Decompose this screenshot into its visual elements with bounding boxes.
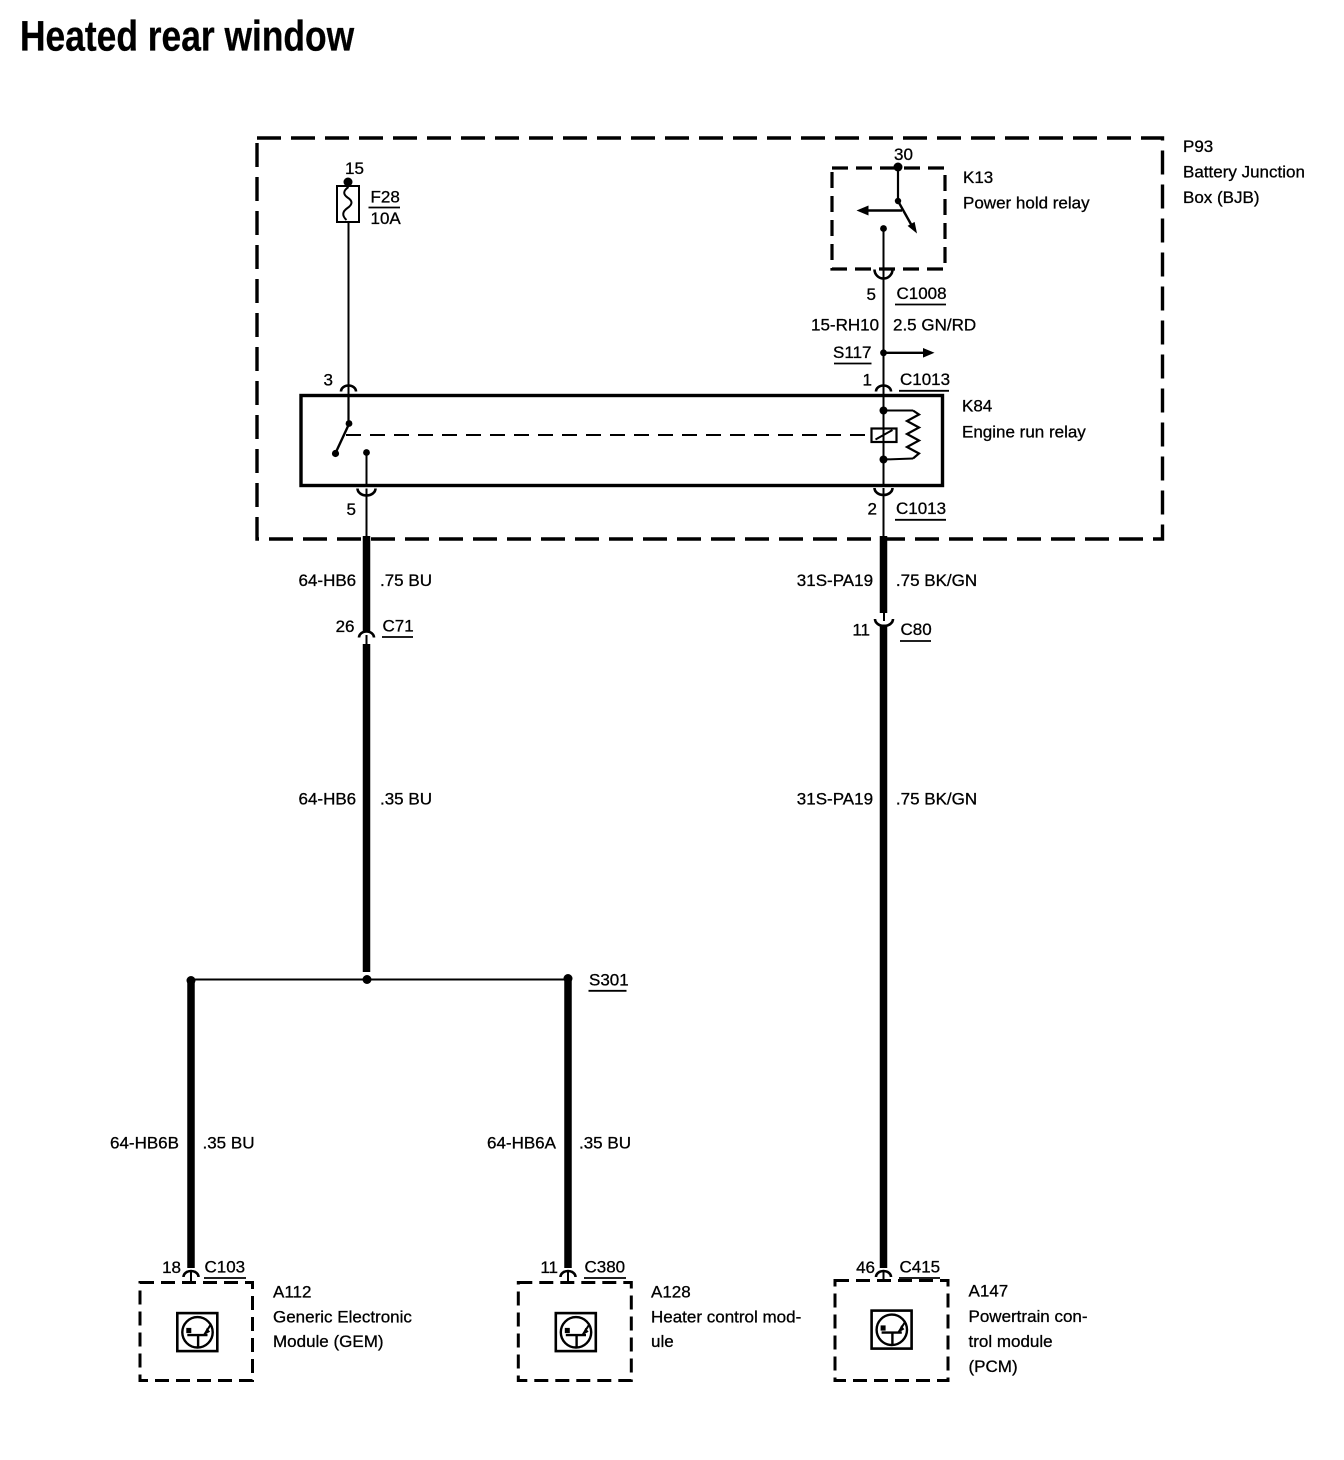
svg-text:Battery Junction: Battery Junction bbox=[1183, 163, 1305, 182]
K84 coil bbox=[872, 397, 897, 484]
svg-text:Heater control mod-: Heater control mod- bbox=[651, 1308, 801, 1327]
svg-text:46: 46 bbox=[856, 1258, 875, 1277]
svg-text:64-HB6: 64-HB6 bbox=[299, 790, 357, 809]
node 30 (K13 pin 30) bbox=[894, 145, 913, 172]
svg-text:11: 11 bbox=[540, 1258, 558, 1277]
svg-text:18: 18 bbox=[162, 1258, 181, 1277]
svg-text:ule: ule bbox=[651, 1332, 674, 1351]
svg-text:A112: A112 bbox=[273, 1283, 311, 1302]
svg-text:S117: S117 bbox=[833, 343, 871, 362]
svg-text:10A: 10A bbox=[371, 209, 402, 228]
wire 64-HB6 .35 BU bbox=[299, 644, 432, 972]
module A112 solid state icon bbox=[177, 1313, 217, 1351]
svg-text:3: 3 bbox=[324, 371, 333, 390]
svg-text:C103: C103 bbox=[205, 1258, 246, 1277]
svg-text:64-HB6: 64-HB6 bbox=[299, 571, 357, 590]
K13 lower contact node bbox=[880, 225, 887, 279]
svg-text:26: 26 bbox=[336, 617, 355, 636]
svg-text:Heated rear window: Heated rear window bbox=[20, 12, 354, 60]
svg-text:P93: P93 bbox=[1183, 137, 1213, 156]
svg-text:Box (BJB): Box (BJB) bbox=[1183, 188, 1260, 207]
node 15 (fuse feed pin) bbox=[344, 159, 364, 187]
module A112 box bbox=[140, 1283, 253, 1381]
svg-text:C380: C380 bbox=[585, 1258, 626, 1277]
splice S117 bbox=[833, 343, 934, 364]
svg-text:15: 15 bbox=[345, 159, 364, 178]
svg-text:.75 BK/GN: .75 BK/GN bbox=[896, 790, 977, 809]
connector pin 3 K84 bbox=[324, 371, 356, 392]
wire 64-HB6B .35 BU bbox=[110, 981, 254, 1269]
svg-text:C1008: C1008 bbox=[897, 284, 947, 303]
svg-text:S301: S301 bbox=[589, 971, 629, 990]
title Heated rear window bbox=[20, 12, 354, 60]
relay K84 box bbox=[301, 396, 1086, 486]
module A128 box bbox=[518, 1283, 631, 1381]
connector C380 pin 11 bbox=[540, 1258, 626, 1283]
svg-text:11: 11 bbox=[852, 621, 870, 640]
svg-text:.35 BU: .35 BU bbox=[380, 790, 432, 809]
svg-text:F28: F28 bbox=[371, 188, 400, 207]
svg-text:30: 30 bbox=[894, 145, 913, 164]
svg-text:64-HB6B: 64-HB6B bbox=[110, 1134, 179, 1153]
connector C103 pin 18 bbox=[162, 1258, 246, 1283]
module A147 solid state icon bbox=[872, 1311, 912, 1349]
connector C1013 pin 2 bbox=[868, 488, 947, 540]
K84 internal dashed link bbox=[346, 434, 872, 436]
K84 coil resistor branch bbox=[884, 411, 920, 460]
connector pin 5 K84 bbox=[347, 489, 376, 541]
label A147 Powertrain control module (PCM) bbox=[969, 1282, 1088, 1377]
battery junction box P93 dashed enclosure bbox=[257, 138, 1163, 539]
connector C80 pin 11 bbox=[852, 612, 931, 641]
K13 switch armature bbox=[895, 167, 917, 234]
svg-text:K13: K13 bbox=[963, 168, 993, 187]
label A128 Heater control module bbox=[651, 1283, 801, 1352]
svg-text:C80: C80 bbox=[901, 620, 932, 639]
svg-text:64-HB6A: 64-HB6A bbox=[487, 1134, 557, 1153]
svg-text:2.5 GN/RD: 2.5 GN/RD bbox=[893, 316, 976, 335]
module A147 box bbox=[835, 1281, 948, 1381]
svg-text:Power hold relay: Power hold relay bbox=[963, 194, 1090, 213]
connector C415 pin 46 bbox=[856, 1258, 940, 1281]
fuse F28 10A bbox=[337, 186, 401, 228]
svg-text:C1013: C1013 bbox=[900, 370, 950, 389]
wire 31S-PA19 .75 BK/GN lower bbox=[797, 625, 977, 1269]
svg-text:C71: C71 bbox=[383, 617, 414, 636]
svg-text:C1013: C1013 bbox=[896, 499, 946, 518]
svg-text:15-RH10: 15-RH10 bbox=[811, 316, 879, 335]
connector C71 pin 26 bbox=[336, 617, 414, 645]
svg-text:Powertrain con-: Powertrain con- bbox=[969, 1307, 1088, 1326]
svg-text:A147: A147 bbox=[969, 1282, 1009, 1301]
svg-text:C415: C415 bbox=[900, 1258, 941, 1277]
connector C1013 pin 1 bbox=[863, 370, 951, 392]
svg-text:trol module: trol module bbox=[969, 1332, 1053, 1351]
svg-text:1: 1 bbox=[863, 371, 872, 390]
svg-text:Engine run relay: Engine run relay bbox=[962, 423, 1086, 442]
wire 64-HB6 .75 BU bbox=[299, 536, 432, 632]
label A112 Generic Electronic Module (GEM) bbox=[273, 1283, 412, 1352]
svg-text:A128: A128 bbox=[651, 1283, 691, 1302]
svg-text:Module (GEM): Module (GEM) bbox=[273, 1332, 384, 1351]
svg-text:31S-PA19: 31S-PA19 bbox=[797, 790, 873, 809]
svg-text:5: 5 bbox=[347, 500, 356, 519]
svg-text:Generic Electronic: Generic Electronic bbox=[273, 1308, 412, 1327]
svg-text:K84: K84 bbox=[962, 397, 992, 416]
module A128 solid state icon bbox=[556, 1313, 596, 1351]
svg-text:5: 5 bbox=[867, 285, 876, 304]
wire 31S-PA19 .75 BK/GN upper bbox=[797, 536, 977, 613]
svg-text:.75 BK/GN: .75 BK/GN bbox=[896, 571, 977, 590]
svg-text:.35 BU: .35 BU bbox=[203, 1134, 255, 1153]
svg-text:31S-PA19: 31S-PA19 bbox=[797, 571, 873, 590]
svg-text:2: 2 bbox=[868, 500, 877, 519]
splice S301 bbox=[187, 971, 629, 991]
connector C1008 pin 5 bbox=[867, 270, 947, 305]
label P93 Battery Junction Box (BJB) bbox=[1183, 137, 1305, 207]
wire C1008 to S117, 15-RH10 2.5 GN/RD bbox=[811, 279, 976, 398]
K13 left contact arrow bbox=[857, 206, 903, 216]
K84 switch bbox=[332, 397, 370, 484]
svg-text:.75 BU: .75 BU bbox=[380, 571, 432, 590]
svg-text:.35 BU: .35 BU bbox=[579, 1134, 631, 1153]
wire 64-HB6A .35 BU bbox=[487, 979, 631, 1269]
wire fuse F28 to K84 pin 3 bbox=[348, 222, 350, 398]
svg-text:(PCM): (PCM) bbox=[969, 1357, 1018, 1376]
relay K13 dashed box bbox=[832, 168, 1090, 269]
